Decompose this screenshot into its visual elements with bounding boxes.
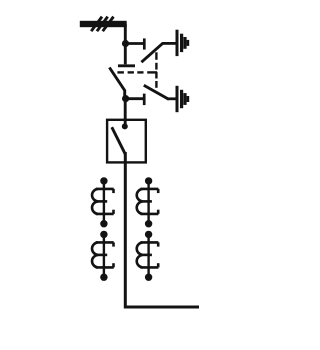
wire: ES2 pivot to ground G2: [168, 97, 177, 100]
wire: breaker down and bottom feeder run to the right: [125, 152, 199, 307]
breaker blade (open): [112, 127, 126, 154]
current transformer T1a (left column, upper): [92, 177, 114, 227]
current transformer T1b (left column, lower): [92, 231, 114, 281]
wire: busbar down to node A: [124, 24, 127, 44]
mechanical linkage (dashed) horizontal run: [117, 71, 157, 73]
earthing switch ES1 blade (open): [141, 43, 162, 62]
circuit breaker box (withdrawable unit): [107, 120, 146, 163]
mechanical linkage (dashed) vertical run: [155, 52, 157, 88]
earth busbar (hatched bar, top): [80, 21, 127, 27]
ground G2 (earth symbol, rotated): [177, 86, 188, 112]
wire: node B down into breaker box: [124, 99, 127, 124]
node A (junction dot): [122, 40, 129, 47]
breaker fixed contact dot: [122, 123, 128, 129]
wire: node A to ES1 fixed contact: [126, 42, 144, 45]
disconnector QS1 fixed contact bar: [118, 64, 135, 67]
earthing switch ES1 fixed contact bar: [143, 38, 146, 49]
disconnector QS1 blade (open) + wire to node B: [109, 68, 124, 99]
earthing switch ES2 fixed contact bar: [143, 94, 146, 106]
wire: node A down to disconnector QS1: [124, 44, 127, 65]
wire: ES1 pivot to ground G1: [162, 42, 177, 45]
node B (junction dot): [122, 95, 129, 102]
current transformer T2a (right column, upper): [137, 177, 159, 227]
earthing switch ES2 blade (open): [144, 85, 169, 99]
earth bar hatch strokes: [91, 17, 113, 32]
current transformer T2b (right column, lower): [137, 231, 159, 281]
ground G1 (earth symbol, rotated): [177, 30, 188, 56]
wire: node B to ES2 fixed contact: [126, 97, 143, 100]
